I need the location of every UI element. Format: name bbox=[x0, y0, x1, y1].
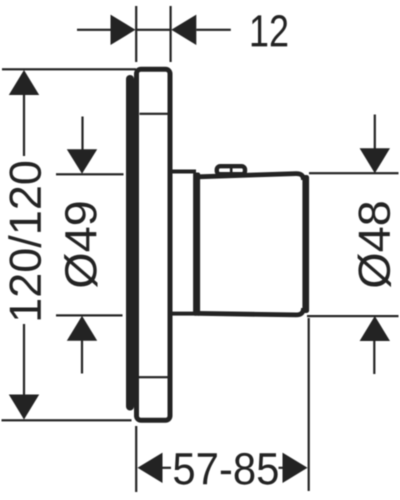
escutcheon plate side profile bar bbox=[126, 75, 134, 411]
dimension 12: left leader tail bbox=[77, 29, 111, 31]
handle cylinder bottom edge bbox=[198, 308, 304, 315]
dimension 12: left arrowhead bbox=[111, 15, 136, 45]
dimension 57-85: right extension line bbox=[308, 318, 310, 491]
dimension 57-85: value label bbox=[174, 453, 278, 485]
dimension 57-85: right arrowhead bbox=[283, 453, 308, 483]
dimension Ø49: value label (rotated) bbox=[64, 203, 97, 288]
dimension 12: right arrowhead bbox=[171, 15, 196, 45]
dimension 120/120: lower dimension line segment bbox=[23, 324, 25, 418]
dimension Ø49: top extension line bbox=[56, 173, 124, 175]
dimension 57-85: right line stub bbox=[279, 467, 284, 469]
handle cylinder back edge bbox=[193, 173, 200, 316]
dimension 120/120: value label (rotated) bbox=[8, 162, 41, 319]
dimension Ø48: top extension line bbox=[309, 172, 399, 174]
escutcheon plate upper seam line bbox=[140, 113, 169, 115]
dimension 12: right extension line bbox=[170, 6, 172, 62]
dimension 12: right leader tail bbox=[196, 29, 231, 31]
dimension Ø48: bottom leader line bbox=[373, 341, 375, 374]
dimension Ø48: top arrowhead (down) bbox=[360, 148, 390, 173]
dimension Ø48: value label (rotated) bbox=[358, 202, 391, 287]
temperature stop tab outline bbox=[217, 166, 245, 174]
dimension Ø48: top leader line bbox=[374, 115, 376, 149]
dimension 12: left extension line bbox=[135, 6, 137, 62]
dimension 57-85: left line stub bbox=[163, 467, 172, 469]
handle cylinder front (right) edge bbox=[302, 175, 309, 313]
dimension Ø49: top leader line bbox=[81, 117, 83, 151]
dimension 57-85: left arrowhead bbox=[138, 453, 163, 483]
escutcheon plate front face outline bbox=[137, 69, 171, 420]
stem top line bbox=[172, 170, 196, 174]
dimension Ø48: bottom extension line bbox=[307, 315, 399, 317]
dimension Ø49: bottom arrowhead (up) bbox=[67, 316, 97, 341]
dimension 120/120: bottom extension line bbox=[2, 419, 132, 421]
handle cylinder top edge bbox=[198, 174, 304, 180]
dimension 120/120: top extension line bbox=[2, 68, 136, 70]
stem bottom line bbox=[172, 312, 196, 316]
dimension 57-85: left extension line bbox=[135, 426, 137, 492]
dimension Ø48: bottom arrowhead (up) bbox=[360, 316, 390, 341]
dimension Ø49: top arrowhead (down) bbox=[67, 149, 97, 174]
dimension 120/120: upper dimension line segment bbox=[23, 72, 25, 156]
dimension 12: dimension line between extension lines bbox=[136, 29, 171, 31]
dimension Ø49: bottom extension line bbox=[56, 314, 123, 316]
dimension 12: value label bbox=[252, 15, 288, 46]
dimension Ø49: bottom leader line bbox=[81, 341, 83, 374]
dimension 120/120: bottom arrowhead (down) bbox=[9, 395, 39, 420]
dimension 120/120: top arrowhead (up) bbox=[9, 70, 39, 95]
escutcheon plate lower seam line bbox=[136, 376, 170, 378]
temperature stop tab divider bbox=[230, 166, 233, 174]
